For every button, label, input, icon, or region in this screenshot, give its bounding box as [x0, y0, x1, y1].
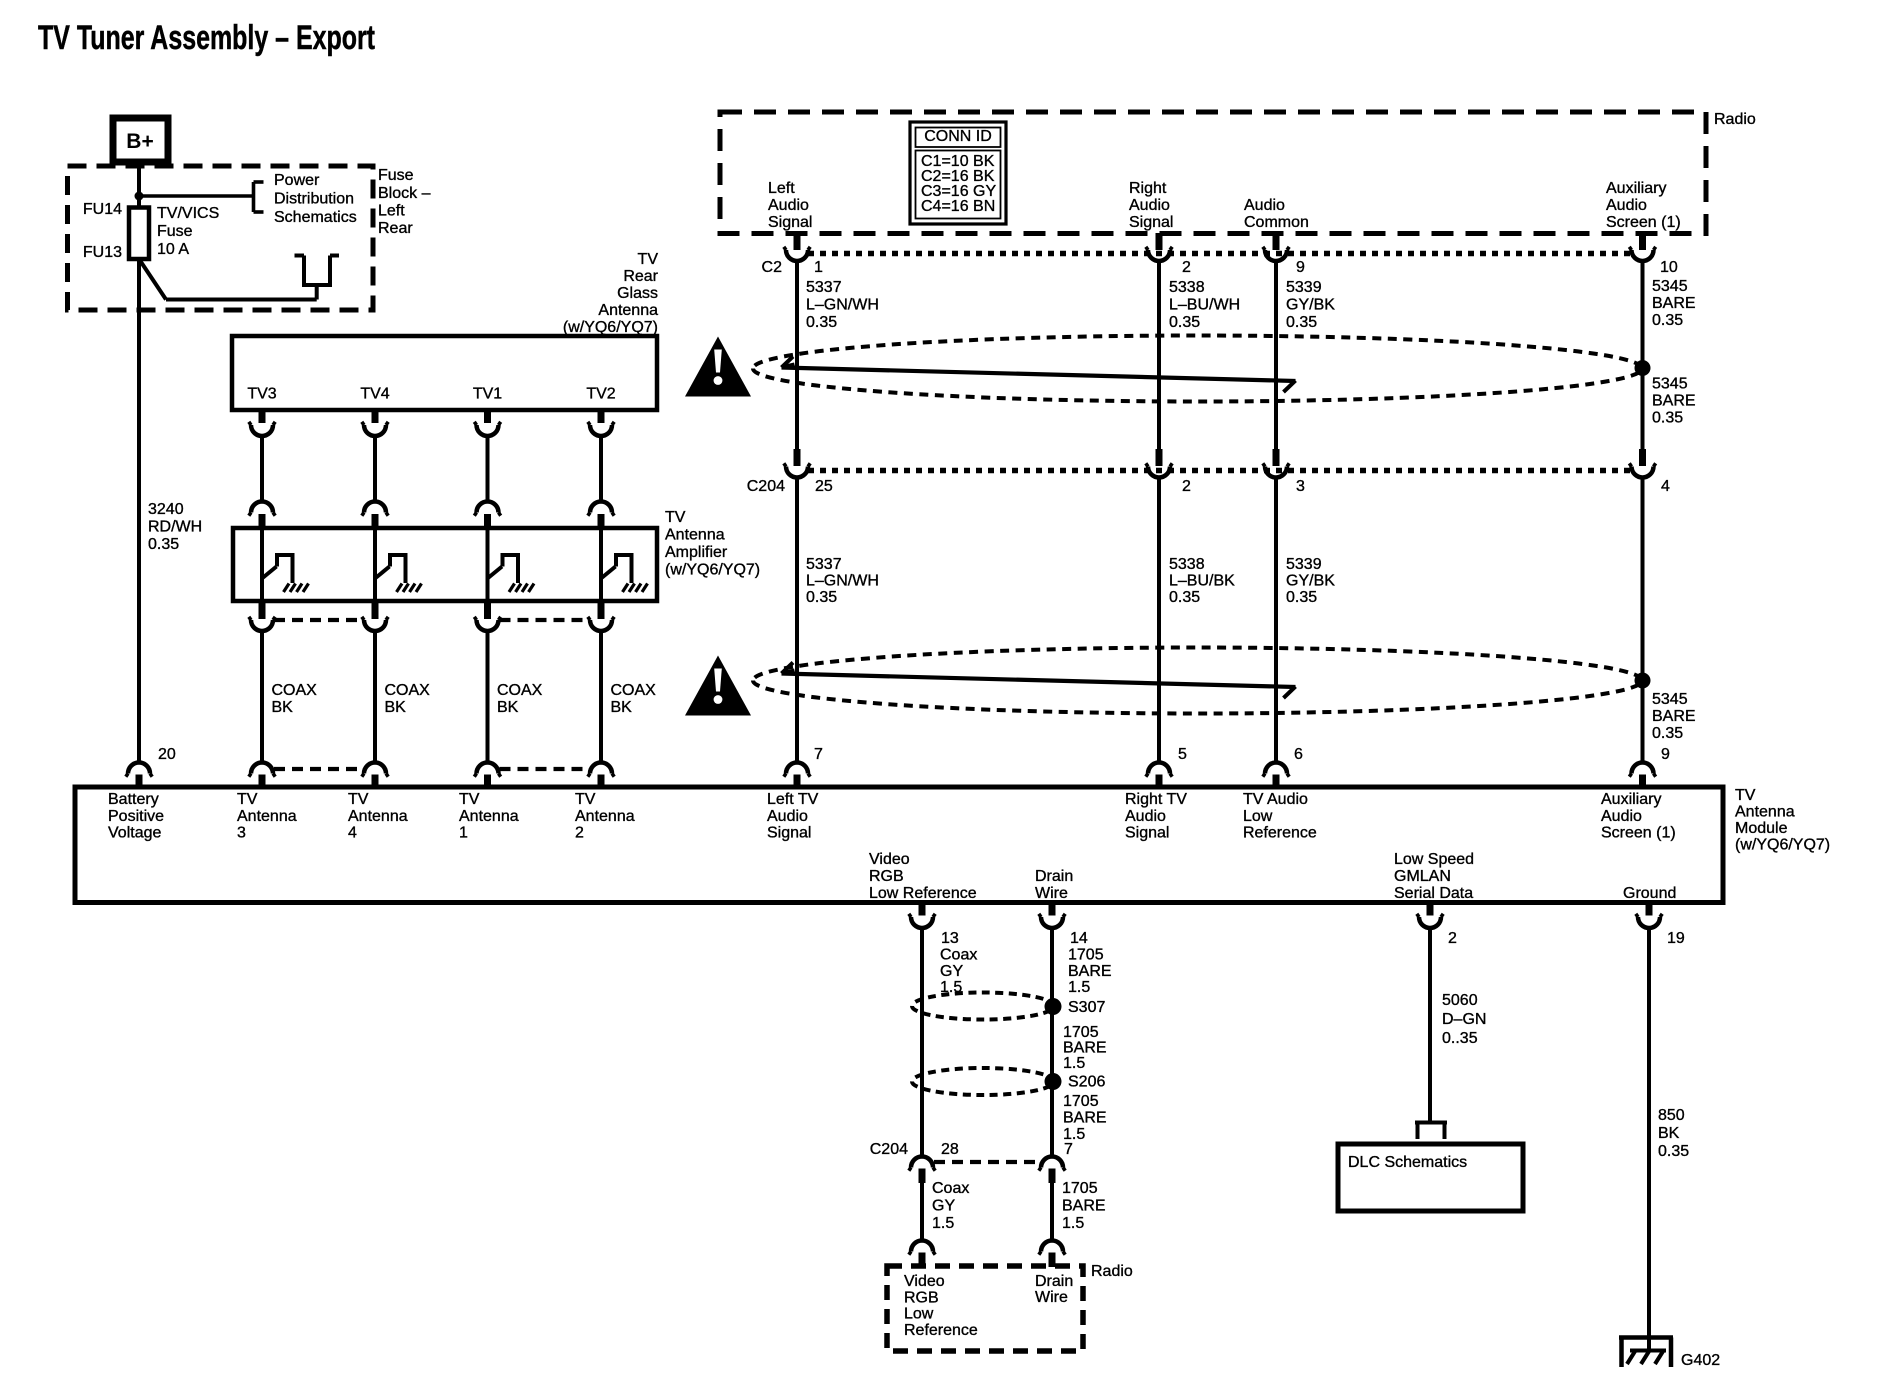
svg-text:4: 4: [348, 825, 357, 842]
svg-text:2: 2: [1182, 478, 1191, 495]
svg-text:9: 9: [1661, 746, 1670, 763]
svg-text:2: 2: [1182, 259, 1191, 276]
svg-text:Antenna: Antenna: [348, 808, 408, 825]
svg-text:1705: 1705: [1068, 947, 1104, 964]
svg-text:TV: TV: [348, 791, 369, 808]
svg-text:BK: BK: [611, 699, 633, 716]
svg-text:5345: 5345: [1652, 691, 1688, 708]
svg-text:Block –: Block –: [378, 185, 431, 202]
svg-text:Distribution: Distribution: [274, 191, 354, 208]
svg-text:Antenna: Antenna: [459, 808, 519, 825]
svg-text:BK: BK: [385, 699, 407, 716]
svg-text:Left: Left: [378, 203, 405, 220]
svg-text:RGB: RGB: [869, 868, 904, 885]
svg-text:Rear: Rear: [623, 268, 658, 285]
svg-text:Audio: Audio: [768, 197, 809, 214]
svg-text:L–BU/BK: L–BU/BK: [1169, 573, 1235, 590]
svg-text:Battery: Battery: [108, 791, 159, 808]
svg-text:FU14: FU14: [83, 201, 122, 218]
svg-text:RD/WH: RD/WH: [148, 519, 202, 536]
svg-text:Screen (1): Screen (1): [1606, 214, 1681, 231]
svg-text:G402: G402: [1681, 1352, 1720, 1369]
svg-text:5337: 5337: [806, 279, 842, 296]
svg-text:1705: 1705: [1062, 1180, 1098, 1197]
svg-text:TV: TV: [575, 791, 596, 808]
svg-text:Reference: Reference: [1243, 825, 1317, 842]
svg-text:GY: GY: [932, 1198, 955, 1215]
svg-text:TV Tuner Assembly – Export: TV Tuner Assembly – Export: [38, 19, 375, 57]
svg-text:TV1: TV1: [473, 386, 502, 403]
svg-text:Screen (1): Screen (1): [1601, 825, 1676, 842]
svg-text:BARE: BARE: [1063, 1040, 1107, 1057]
svg-text:GMLAN: GMLAN: [1394, 868, 1451, 885]
svg-text:7: 7: [1064, 1141, 1073, 1158]
svg-text:Audio: Audio: [1125, 808, 1166, 825]
svg-text:4: 4: [1661, 478, 1670, 495]
svg-text:Rear: Rear: [378, 220, 413, 237]
svg-text:6: 6: [1294, 746, 1303, 763]
svg-text:RGB: RGB: [904, 1289, 939, 1306]
svg-text:1.5: 1.5: [1063, 1055, 1085, 1072]
svg-text:Video: Video: [904, 1273, 945, 1290]
svg-text:Right: Right: [1129, 180, 1167, 197]
svg-text:(w/YQ6/YQ7): (w/YQ6/YQ7): [563, 319, 658, 336]
svg-text:13: 13: [941, 930, 959, 947]
svg-text:1.5: 1.5: [932, 1215, 954, 1232]
svg-text:Audio: Audio: [767, 808, 808, 825]
svg-text:DLC Schematics: DLC Schematics: [1348, 1154, 1467, 1171]
svg-text:1.5: 1.5: [1068, 979, 1090, 996]
svg-text:BK: BK: [272, 699, 294, 716]
svg-text:BARE: BARE: [1063, 1110, 1107, 1127]
svg-text:Left TV: Left TV: [767, 791, 819, 808]
svg-text:850: 850: [1658, 1107, 1685, 1124]
svg-text:7: 7: [814, 746, 823, 763]
svg-text:Reference: Reference: [904, 1322, 978, 1339]
svg-text:Ground: Ground: [1623, 885, 1676, 902]
svg-text:Drain: Drain: [1035, 868, 1073, 885]
svg-text:1: 1: [459, 825, 468, 842]
svg-text:BARE: BARE: [1652, 393, 1696, 410]
svg-text:Coax: Coax: [940, 947, 977, 964]
svg-text:20: 20: [158, 746, 176, 763]
svg-text:0.35: 0.35: [1286, 314, 1317, 331]
svg-text:C4=16 BN: C4=16 BN: [921, 198, 995, 215]
svg-text:S206: S206: [1068, 1074, 1105, 1091]
svg-text:Auxiliary: Auxiliary: [1606, 180, 1666, 197]
svg-text:Audio: Audio: [1606, 197, 1647, 214]
svg-text:COAX: COAX: [272, 682, 318, 699]
svg-text:19: 19: [1667, 930, 1685, 947]
svg-text:0..35: 0..35: [1442, 1030, 1478, 1047]
svg-text:Wire: Wire: [1035, 1289, 1068, 1306]
svg-text:5339: 5339: [1286, 279, 1322, 296]
svg-text:TV/VICS: TV/VICS: [157, 205, 219, 222]
svg-text:2: 2: [575, 825, 584, 842]
svg-text:Radio: Radio: [1091, 1263, 1133, 1280]
svg-text:TV4: TV4: [360, 386, 389, 403]
svg-text:25: 25: [815, 478, 833, 495]
svg-text:Antenna: Antenna: [575, 808, 635, 825]
svg-text:L–BU/WH: L–BU/WH: [1169, 297, 1240, 314]
svg-text:14: 14: [1070, 930, 1088, 947]
svg-text:TV Audio: TV Audio: [1243, 791, 1308, 808]
svg-text:0.35: 0.35: [1652, 410, 1683, 427]
svg-text:0.35: 0.35: [1169, 589, 1200, 606]
svg-text:TV: TV: [638, 251, 659, 268]
svg-text:Common: Common: [1244, 214, 1309, 231]
svg-text:BK: BK: [497, 699, 519, 716]
svg-text:GY: GY: [940, 963, 963, 980]
svg-text:5345: 5345: [1652, 278, 1688, 295]
svg-text:COAX: COAX: [497, 682, 543, 699]
svg-text:Audio: Audio: [1601, 808, 1642, 825]
svg-text:Low: Low: [904, 1306, 934, 1323]
svg-text:Low Speed: Low Speed: [1394, 851, 1474, 868]
svg-text:(w/YQ6/YQ7): (w/YQ6/YQ7): [1735, 837, 1830, 854]
svg-text:Antenna: Antenna: [1735, 804, 1795, 821]
svg-text:Signal: Signal: [1129, 214, 1173, 231]
svg-text:BARE: BARE: [1652, 295, 1696, 312]
svg-text:TV: TV: [459, 791, 480, 808]
svg-text:Amplifier: Amplifier: [665, 544, 728, 561]
svg-text:Signal: Signal: [1125, 825, 1169, 842]
svg-text:0.35: 0.35: [1286, 589, 1317, 606]
svg-text:S307: S307: [1068, 999, 1105, 1016]
svg-text:Module: Module: [1735, 820, 1788, 837]
svg-text:(w/YQ6/YQ7): (w/YQ6/YQ7): [665, 562, 760, 579]
svg-text:Positive: Positive: [108, 808, 164, 825]
svg-text:3: 3: [237, 825, 246, 842]
svg-text:Schematics: Schematics: [274, 209, 357, 226]
svg-text:TV2: TV2: [586, 386, 615, 403]
svg-text:Antenna: Antenna: [237, 808, 297, 825]
svg-text:TV3: TV3: [247, 386, 276, 403]
svg-text:9: 9: [1296, 259, 1305, 276]
svg-text:COAX: COAX: [385, 682, 431, 699]
svg-text:1705: 1705: [1063, 1093, 1099, 1110]
svg-text:5: 5: [1178, 746, 1187, 763]
svg-text:3: 3: [1296, 478, 1305, 495]
svg-text:Fuse: Fuse: [378, 167, 414, 184]
svg-text:FU13: FU13: [83, 244, 122, 261]
svg-text:1.5: 1.5: [1062, 1215, 1084, 1232]
svg-text:C2: C2: [762, 259, 783, 276]
svg-text:Right TV: Right TV: [1125, 791, 1187, 808]
svg-text:Voltage: Voltage: [108, 825, 161, 842]
svg-text:Low: Low: [1243, 808, 1273, 825]
svg-text:Auxiliary: Auxiliary: [1601, 791, 1661, 808]
svg-text:C204: C204: [870, 1141, 908, 1158]
svg-text:COAX: COAX: [611, 682, 657, 699]
svg-text:Video: Video: [869, 851, 910, 868]
svg-text:BARE: BARE: [1062, 1198, 1106, 1215]
svg-text:Signal: Signal: [768, 214, 812, 231]
svg-text:5060: 5060: [1442, 992, 1478, 1009]
svg-text:0.35: 0.35: [1652, 312, 1683, 329]
svg-text:B+: B+: [126, 130, 153, 153]
svg-text:3240: 3240: [148, 501, 184, 518]
svg-text:CONN ID: CONN ID: [924, 128, 992, 145]
svg-text:Serial Data: Serial Data: [1394, 885, 1473, 902]
svg-text:Audio: Audio: [1244, 197, 1285, 214]
svg-text:0.35: 0.35: [1658, 1143, 1689, 1160]
svg-text:Signal: Signal: [767, 825, 811, 842]
svg-text:0.35: 0.35: [148, 536, 179, 553]
svg-text:1: 1: [814, 259, 823, 276]
svg-text:2: 2: [1448, 930, 1457, 947]
svg-text:10 A: 10 A: [157, 241, 189, 258]
svg-text:C204: C204: [747, 478, 785, 495]
svg-text:5337: 5337: [806, 556, 842, 573]
svg-text:Left: Left: [768, 180, 795, 197]
svg-text:5338: 5338: [1169, 279, 1205, 296]
svg-text:Antenna: Antenna: [598, 302, 658, 319]
svg-text:Audio: Audio: [1129, 197, 1170, 214]
svg-text:0.35: 0.35: [1652, 725, 1683, 742]
svg-text:BK: BK: [1658, 1125, 1680, 1142]
svg-text:GY/BK: GY/BK: [1286, 573, 1335, 590]
svg-text:Coax: Coax: [932, 1180, 969, 1197]
svg-text:L–GN/WH: L–GN/WH: [806, 297, 879, 314]
svg-text:5338: 5338: [1169, 556, 1205, 573]
svg-text:BARE: BARE: [1652, 708, 1696, 725]
svg-text:TV: TV: [237, 791, 258, 808]
svg-text:1.5: 1.5: [940, 979, 962, 996]
svg-text:L–GN/WH: L–GN/WH: [806, 573, 879, 590]
svg-text:Wire: Wire: [1035, 885, 1068, 902]
svg-text:BARE: BARE: [1068, 963, 1112, 980]
svg-text:GY/BK: GY/BK: [1286, 297, 1335, 314]
svg-text:0.35: 0.35: [806, 589, 837, 606]
svg-text:0.35: 0.35: [806, 314, 837, 331]
svg-text:5345: 5345: [1652, 376, 1688, 393]
svg-text:Low Reference: Low Reference: [869, 885, 977, 902]
svg-text:10: 10: [1660, 259, 1678, 276]
svg-text:D–GN: D–GN: [1442, 1011, 1486, 1028]
svg-text:Fuse: Fuse: [157, 223, 193, 240]
svg-text:Glass: Glass: [617, 285, 658, 302]
svg-text:TV: TV: [1735, 787, 1756, 804]
svg-text:Power: Power: [274, 172, 320, 189]
svg-text:1705: 1705: [1063, 1024, 1099, 1041]
svg-text:5339: 5339: [1286, 556, 1322, 573]
svg-text:Antenna: Antenna: [665, 527, 725, 544]
svg-text:28: 28: [941, 1141, 959, 1158]
svg-text:TV: TV: [665, 509, 686, 526]
svg-text:Radio: Radio: [1714, 111, 1756, 128]
svg-text:0.35: 0.35: [1169, 314, 1200, 331]
svg-text:Drain: Drain: [1035, 1273, 1073, 1290]
